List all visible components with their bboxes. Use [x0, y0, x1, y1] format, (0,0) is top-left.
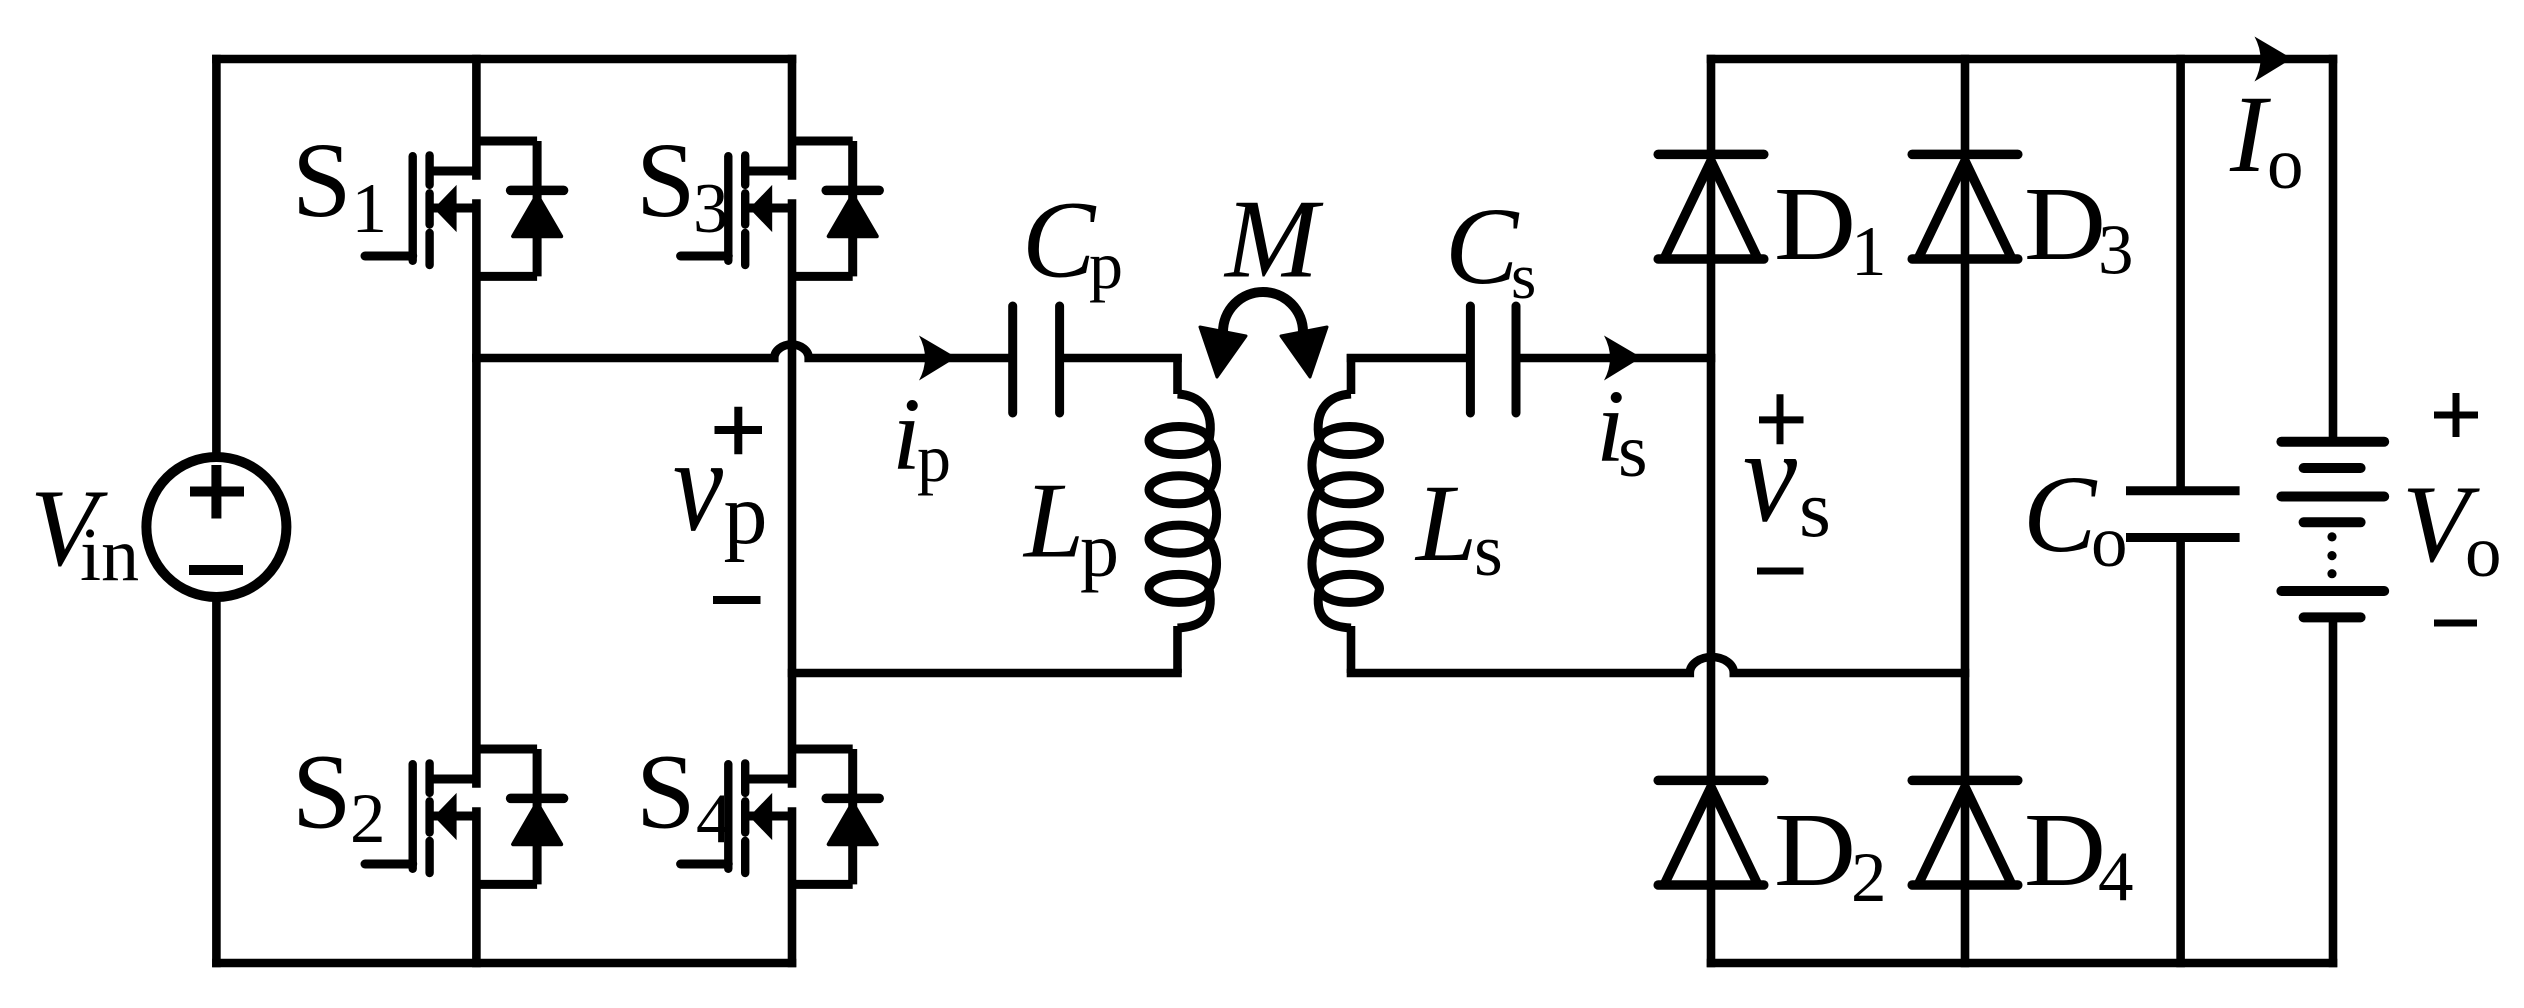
- svg-text:1: 1: [352, 170, 388, 248]
- svg-text:I: I: [2229, 73, 2271, 195]
- svg-text:2: 2: [350, 780, 386, 858]
- svg-text:C: C: [2023, 453, 2098, 575]
- svg-text:C: C: [1445, 185, 1520, 307]
- svg-text:C: C: [1022, 178, 1097, 300]
- svg-text:D: D: [1774, 791, 1856, 908]
- svg-text:M: M: [1223, 177, 1324, 301]
- svg-text:p: p: [724, 467, 768, 564]
- svg-text:S: S: [636, 122, 696, 240]
- svg-text:4: 4: [696, 780, 732, 858]
- svg-text:4: 4: [2098, 838, 2134, 916]
- svg-text:2: 2: [1851, 839, 1887, 917]
- svg-text:in: in: [80, 513, 139, 597]
- svg-text:3: 3: [2098, 212, 2134, 290]
- svg-text:v: v: [1743, 402, 1797, 550]
- svg-text:o: o: [2091, 501, 2128, 582]
- svg-text:D: D: [2024, 165, 2106, 282]
- svg-text:p: p: [917, 420, 951, 496]
- svg-text:L: L: [1414, 462, 1477, 584]
- svg-text:D: D: [1774, 165, 1856, 282]
- svg-text:o: o: [2267, 123, 2304, 204]
- svg-text:s: s: [1799, 463, 1831, 554]
- svg-text:p: p: [1089, 227, 1123, 303]
- svg-text:S: S: [292, 734, 352, 852]
- svg-text:p: p: [1080, 506, 1119, 593]
- svg-text:1: 1: [1851, 213, 1887, 291]
- svg-text:s: s: [1618, 409, 1648, 493]
- svg-text:S: S: [292, 122, 352, 240]
- svg-text:s: s: [1474, 510, 1503, 592]
- svg-text:D: D: [2024, 791, 2106, 908]
- svg-text:o: o: [2465, 511, 2502, 592]
- svg-text:L: L: [1022, 462, 1084, 581]
- svg-text:S: S: [636, 734, 696, 852]
- svg-text:s: s: [1511, 241, 1536, 313]
- svg-text:3: 3: [693, 170, 729, 248]
